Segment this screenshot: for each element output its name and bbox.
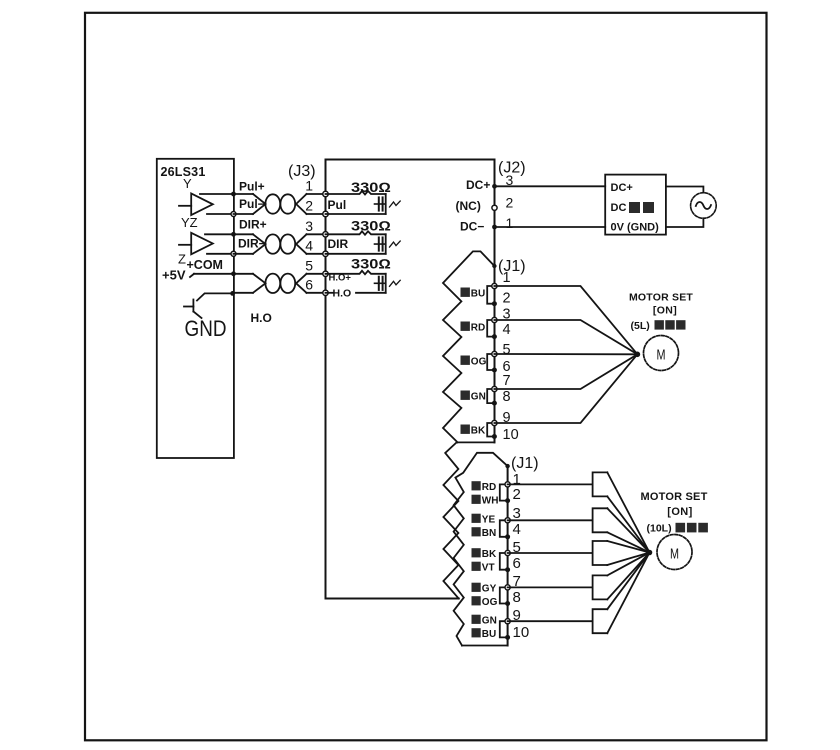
DC power supply box — [605, 175, 666, 235]
svg-text:10: 10 — [503, 427, 519, 443]
svg-text:3: 3 — [305, 218, 313, 234]
svg-text:DC+: DC+ — [611, 182, 633, 194]
svg-text:DC: DC — [611, 202, 627, 214]
twisted pair Pul+/Pul- — [234, 194, 326, 214]
motor1 wire pin1 — [494, 286, 637, 354]
label DC dianyuan in power box — [611, 202, 655, 214]
svg-text:GN: GN — [482, 616, 497, 627]
svg-text:Y: Y — [183, 176, 192, 191]
svg-text:[ON]: [ON] — [653, 304, 677, 316]
motor1 wire pin9 — [494, 354, 637, 423]
line driver Y (upper buffer) — [179, 176, 213, 215]
motor2 wire pair 5 — [508, 553, 650, 634]
label (5L) setting (upper) — [631, 320, 686, 332]
svg-text:VT: VT — [482, 563, 495, 574]
svg-text:RD: RD — [471, 323, 485, 334]
wire Pul- from driver Y to box edge — [207, 213, 234, 215]
svg-text:(J1): (J1) — [511, 455, 539, 472]
J1 upper pin numbers — [503, 270, 519, 443]
svg-text:10: 10 — [513, 624, 530, 641]
J1 lower pin numbers — [513, 471, 530, 641]
wire DC- to power supply — [495, 226, 606, 228]
svg-text:4: 4 — [513, 521, 521, 538]
svg-text:GN: GN — [471, 392, 486, 403]
IC U1 26LS31 box — [157, 159, 234, 458]
input circuit DIR: resistor 330ohm R2 + opto LED — [326, 219, 401, 254]
svg-text:+COM: +COM — [187, 258, 223, 272]
J1 lower cable zigzag — [454, 453, 508, 646]
svg-text:H.O: H.O — [251, 311, 272, 325]
wire color label GN — [461, 391, 486, 403]
J1 upper pin pair 5/6 bracket — [487, 351, 497, 372]
svg-text:1: 1 — [305, 178, 313, 194]
J1 lower wire color labels — [472, 481, 499, 640]
svg-text:M: M — [670, 546, 679, 563]
svg-text:MOTOR SET: MOTOR SET — [641, 491, 708, 503]
svg-text:YE: YE — [482, 515, 496, 526]
svg-text:0V (GND): 0V (GND) — [611, 221, 660, 233]
svg-text:5: 5 — [503, 342, 511, 358]
svg-text:+5V: +5V — [162, 268, 186, 283]
J2 pin 3 DC+ — [466, 172, 514, 192]
twisted pair H.O — [234, 274, 326, 293]
input circuit H.O: resistor 330ohm R3 + opto LED — [326, 257, 401, 293]
svg-text:5: 5 — [305, 257, 313, 273]
svg-text:Pul−: Pul− — [239, 197, 265, 211]
svg-text:2: 2 — [513, 486, 521, 503]
wire AC source to power box 0V — [666, 218, 704, 227]
svg-text:MOTOR SET: MOTOR SET — [629, 292, 693, 304]
svg-text:4: 4 — [305, 237, 313, 253]
svg-text:Z: Z — [178, 252, 186, 267]
motor2 wire pair 4 — [508, 553, 650, 600]
svg-text:1: 1 — [506, 215, 514, 231]
motor2 hub junction — [647, 550, 653, 556]
wire DIR- from driver Z to box edge — [207, 253, 234, 255]
svg-text:330Ω: 330Ω — [351, 257, 391, 272]
wire +COM row5 inside box — [194, 273, 234, 275]
junction on box edge row5 — [231, 271, 236, 276]
svg-text:6: 6 — [305, 276, 313, 292]
ground symbol — [184, 300, 202, 319]
junction on box edge row6 — [230, 291, 235, 296]
J1 upper cable zigzag — [443, 251, 494, 442]
AC source V1 — [691, 193, 717, 219]
svg-text:GY: GY — [482, 584, 497, 595]
wire color label OG — [461, 356, 487, 368]
svg-text:6: 6 — [513, 555, 521, 572]
ground wire from box edge — [197, 293, 233, 300]
svg-text:(NC): (NC) — [456, 199, 481, 213]
junction on box edge row3 — [231, 232, 236, 237]
wire color label BU — [461, 288, 486, 300]
J1 upper pin10 bottom lead — [458, 441, 495, 443]
svg-text:1: 1 — [503, 270, 511, 286]
wire power box to AC source — [666, 187, 704, 193]
svg-text:BK: BK — [482, 549, 497, 560]
motor2 wire pair 1 — [508, 472, 650, 552]
svg-text:BU: BU — [482, 629, 496, 640]
inverting bubble row4 — [231, 251, 236, 256]
cable zigzag from upper J1 to driver bottom — [443, 442, 458, 598]
svg-text:330Ω: 330Ω — [351, 219, 391, 234]
J1 upper pin pair 1/2 bracket — [487, 283, 497, 306]
svg-text:2: 2 — [506, 195, 514, 211]
svg-text:RD: RD — [482, 482, 496, 493]
svg-text:(10L): (10L) — [647, 523, 672, 535]
J1 lower pin pair 5/6 bracket — [500, 550, 510, 572]
svg-text:8: 8 — [503, 389, 511, 405]
motor2 wire pair 3 — [508, 541, 650, 565]
svg-text:2: 2 — [503, 291, 511, 307]
line driver Z (lower buffer) — [178, 215, 213, 267]
twisted pair DIR+/DIR- — [234, 234, 326, 254]
svg-text:7: 7 — [503, 373, 511, 389]
svg-text:4: 4 — [503, 322, 511, 338]
J2 pin 1 DC- — [460, 215, 514, 234]
svg-text:DC−: DC− — [460, 220, 484, 234]
connector J3 pins 1-6 — [305, 178, 328, 296]
motor M2 (10-lead) — [657, 535, 692, 570]
motor1 wire pin5 — [494, 353, 637, 355]
svg-text:DIR: DIR — [328, 237, 349, 251]
svg-text:8: 8 — [513, 589, 521, 606]
svg-text:OG: OG — [471, 357, 487, 368]
svg-text:YZ: YZ — [181, 215, 198, 230]
svg-text:DC+: DC+ — [466, 178, 490, 192]
J1 upper pin pair 3/4 bracket — [487, 317, 497, 339]
svg-text:DIR−: DIR− — [238, 237, 266, 251]
J1 upper pin pair 9/10 bracket — [487, 420, 497, 439]
driver box outline — [326, 160, 495, 599]
svg-text:2: 2 — [305, 198, 313, 214]
svg-text:M: M — [657, 347, 666, 364]
svg-text:GND: GND — [185, 316, 227, 341]
svg-text:(5L): (5L) — [631, 320, 650, 332]
wire color label BK — [461, 425, 487, 437]
svg-text:BU: BU — [471, 289, 485, 300]
svg-text:[ON]: [ON] — [667, 506, 692, 518]
svg-text:OG: OG — [482, 597, 498, 608]
J1 lower pin pair 1/2 bracket — [500, 482, 510, 503]
J1 lower pin pair 3/4 bracket — [500, 518, 510, 540]
motor1 wire pin3 — [494, 320, 637, 354]
wire color label RD — [461, 322, 486, 334]
motor1 wire pin7 — [494, 354, 637, 389]
motor2 wire pair 2 — [508, 508, 650, 552]
svg-text:WH: WH — [482, 496, 499, 507]
motor1 hub junction — [635, 352, 641, 358]
svg-text:Pul+: Pul+ — [239, 180, 265, 194]
input circuit Pul: resistor 330ohm R1 + opto LED — [326, 180, 401, 214]
wire DIR+ from driver Z to box edge — [205, 233, 234, 235]
svg-text:DIR+: DIR+ — [239, 218, 267, 232]
J1 lower pin pair 9/10 bracket — [500, 619, 510, 640]
svg-text:Pul: Pul — [328, 198, 347, 212]
svg-text:H.O+: H.O+ — [329, 273, 352, 284]
J2 pin 2 NC — [456, 195, 514, 214]
inverting bubble row2 — [231, 212, 236, 217]
motor M1 (5-lead) — [644, 336, 679, 371]
J1 lower pin pair 7/8 bracket — [500, 585, 510, 606]
wire DC+ to power supply — [495, 185, 606, 187]
junction on box edge row1 — [231, 192, 236, 197]
J1 upper pin pair 7/8 bracket — [487, 386, 497, 405]
svg-text:H.O: H.O — [333, 287, 352, 299]
J1 lower connector edge — [507, 466, 509, 645]
wire Pul+ from driver Y to box edge — [200, 193, 234, 195]
label (10L) setting (lower) — [647, 523, 708, 535]
svg-text:BN: BN — [482, 528, 496, 539]
J1 lower bottom lead — [462, 645, 508, 647]
svg-text:BK: BK — [471, 426, 486, 437]
